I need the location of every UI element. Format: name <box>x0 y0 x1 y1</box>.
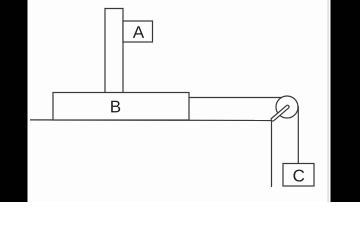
pole on B <box>105 9 123 93</box>
left letterbox bar <box>0 0 28 202</box>
pulley wheel <box>276 96 298 118</box>
block B <box>53 93 189 121</box>
table edge wall <box>271 121 273 188</box>
ground line <box>30 119 272 122</box>
block C <box>283 164 314 187</box>
rope from pulley to C <box>297 106 299 164</box>
right letterbox bar <box>331 0 360 202</box>
label C <box>293 170 304 182</box>
faint edge line right <box>328 0 329 202</box>
pulley bracket rod <box>270 105 289 122</box>
label A <box>133 26 144 38</box>
rope from B to pulley <box>189 97 282 99</box>
block A <box>123 21 153 42</box>
label B <box>111 101 120 113</box>
